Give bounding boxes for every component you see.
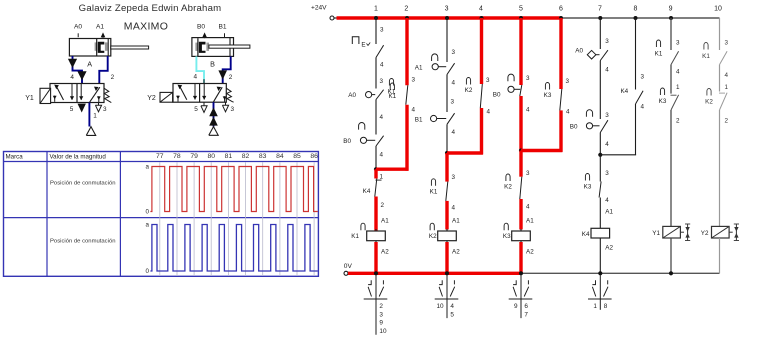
svg-text:A2: A2 (526, 249, 534, 256)
cylinder A piston rod (111, 46, 149, 49)
active wire (519, 151, 522, 177)
svg-text:4: 4 (380, 114, 384, 121)
svg-text:4: 4 (452, 205, 456, 212)
junction branch5/branch6 (519, 148, 523, 152)
svg-text:E: E (361, 42, 365, 49)
valve A 1-2 arrowhead (94, 87, 99, 91)
svg-text:K4: K4 (363, 188, 371, 195)
flow arrow down into valve B port 2 (218, 70, 227, 79)
flow arrows up (valve B supply) (209, 107, 218, 116)
svg-text:3: 3 (676, 40, 680, 47)
contact usage table K3 (520, 275, 522, 318)
NC bar (376, 179, 382, 181)
contact blade (closed) (375, 179, 377, 197)
svg-text:MAXIMO: MAXIMO (124, 21, 168, 33)
svg-text:9: 9 (669, 6, 673, 13)
Y2 link dash (729, 231, 733, 233)
svg-text:3: 3 (379, 311, 383, 318)
svg-text:Marca: Marca (6, 153, 24, 160)
wire Y2 to 0V (719, 238, 721, 273)
svg-text:3: 3 (566, 78, 570, 85)
svg-text:1: 1 (676, 84, 680, 91)
contact blade (open) (671, 95, 679, 110)
junction branch7/branch8 (598, 153, 602, 157)
wire (375, 100, 377, 135)
svg-text:K3: K3 (503, 233, 511, 240)
junction at 0V rail (519, 271, 523, 275)
contact blade (open) (720, 93, 728, 110)
relay contact K1 (NO, closed) (431, 179, 435, 186)
junction branch1/branch2 (374, 167, 378, 171)
wire (599, 61, 601, 120)
solenoid coil Y2 (712, 226, 730, 238)
active wire branch4 to branch3 junction (447, 151, 483, 154)
svg-text:A2: A2 (381, 249, 389, 256)
svg-text:3: 3 (452, 174, 456, 181)
valve B body (5/2 way) (173, 84, 226, 103)
limit-switch roller (360, 137, 366, 143)
valve A port5 exhaust flow arrow (78, 104, 86, 113)
svg-text:1: 1 (725, 84, 729, 91)
junction at 0V rail (445, 271, 449, 275)
wire (375, 146, 377, 169)
branch 1 upper wire (375, 18, 377, 44)
svg-text:84: 84 (276, 153, 284, 160)
svg-text:83: 83 (259, 153, 267, 160)
Y2 valve-link arrows (735, 224, 737, 241)
rail junction dots (374, 16, 378, 20)
valve A right cell port-3 stub (98, 96, 100, 102)
active wire to 0V (519, 242, 522, 273)
arc over B0 branch7 (actuated) (586, 110, 592, 117)
table column separator 2 (119, 152, 121, 277)
svg-text:4: 4 (725, 72, 729, 79)
svg-text:79: 79 (190, 153, 198, 160)
valve B 1-2 arrowhead (217, 87, 222, 91)
svg-text:77: 77 (156, 153, 164, 160)
active wire to K1 contact (445, 153, 448, 182)
svg-text:A1: A1 (526, 218, 534, 225)
svg-text:K1: K1 (702, 53, 710, 60)
junction at 0V rail (598, 271, 602, 275)
NC bar (719, 92, 725, 94)
Y1 valve-link arrows (687, 224, 689, 241)
contact blade (closed) (560, 89, 562, 110)
limit-switch roller (508, 86, 514, 92)
svg-text:4: 4 (526, 204, 530, 211)
state diagram table frame (4, 152, 319, 277)
valve B port1 supply line (navy) (213, 102, 215, 126)
branch 2 active wire down (405, 105, 408, 171)
valve B left cell arrow 1->4 (180, 87, 187, 100)
relay contact K2 (NO, closed) (466, 77, 470, 84)
svg-text:A2: A2 (605, 245, 613, 252)
svg-text:Valor de la magnitud: Valor de la magnitud (50, 153, 107, 160)
active wire to 0V (445, 242, 448, 273)
svg-text:78: 78 (173, 153, 181, 160)
svg-text:1: 1 (374, 6, 378, 13)
svg-text:B: B (210, 60, 215, 69)
wire (599, 133, 601, 155)
NC bar (671, 94, 677, 96)
svg-text:Posición de conmutación: Posición de conmutación (50, 239, 116, 245)
svg-text:A0: A0 (74, 24, 82, 31)
valve A port3 exhaust triangle (98, 103, 100, 106)
branch 6 active wire from +24V (559, 18, 562, 89)
svg-text:85: 85 (293, 153, 301, 160)
svg-text:4: 4 (452, 129, 456, 136)
branch 3 upper wire (446, 18, 448, 62)
svg-text:A1: A1 (96, 24, 104, 31)
arc over K1 coil label (361, 223, 365, 230)
branch 5 active wire from +24V (519, 18, 522, 85)
contact blade (closed) (520, 177, 522, 199)
relay contact K1 (NO, closed) (389, 78, 393, 85)
valve B port3 exhaust triangle (225, 102, 227, 105)
contact blade (open) (376, 136, 384, 146)
contact blade (open) (376, 90, 384, 100)
junction at 0V rail (374, 271, 378, 275)
svg-text:7: 7 (524, 311, 528, 318)
table row separator (4, 217, 319, 219)
flow arrow down (A left tube upper) (68, 59, 77, 68)
table column separator 1 (46, 152, 48, 277)
svg-text:3: 3 (605, 112, 609, 119)
svg-text:3: 3 (605, 38, 609, 45)
svg-text:8: 8 (634, 6, 638, 13)
limit-switch roller (586, 123, 592, 129)
svg-text:3: 3 (380, 27, 384, 34)
relay contact K3 (NC, open) (660, 88, 664, 95)
wire (599, 198, 601, 229)
svg-text:9: 9 (514, 303, 518, 310)
relay contact K2 (NO, closed) (506, 174, 510, 181)
valve A left cell arrow 1->4 (57, 87, 64, 100)
svg-text:3: 3 (641, 74, 645, 81)
active wire junction to K4 contact (374, 169, 377, 178)
valve A return spring (104, 88, 111, 102)
svg-text:K1: K1 (388, 89, 396, 96)
svg-text:3: 3 (451, 99, 455, 106)
svg-text:5: 5 (194, 106, 198, 113)
svg-text:3: 3 (725, 40, 729, 47)
svg-text:10: 10 (379, 328, 387, 335)
svg-text:2: 2 (381, 202, 385, 209)
contact blade (open) (720, 51, 728, 64)
wire Y1 to 0V (670, 238, 672, 273)
svg-text:A1: A1 (415, 65, 423, 72)
compressed air source (valve A) (86, 127, 95, 136)
solenoid coil Y1 (663, 226, 681, 238)
cylinder A rod-side cap (107, 39, 109, 57)
cylinder B body (192, 38, 234, 57)
valve B left cell arrowhead (178, 85, 183, 90)
active wire branch2 to branch1 junction (376, 167, 408, 170)
valve B return spring (226, 88, 233, 102)
solenoid Y2 box (160, 92, 173, 102)
svg-text:K3: K3 (544, 92, 552, 99)
svg-text:B0: B0 (197, 24, 205, 31)
B0 position marker (actuated arrow) (202, 32, 207, 37)
valve B left cell port stub (177, 96, 179, 102)
tube A left port to valve port 4 (navy) (73, 56, 83, 84)
svg-text:2: 2 (676, 118, 680, 125)
svg-text:A2: A2 (452, 249, 460, 256)
svg-text:2: 2 (404, 6, 408, 13)
limit-switch roller (432, 64, 438, 70)
svg-text:a: a (146, 222, 150, 229)
svg-text:4: 4 (641, 104, 645, 111)
limit-switch roller (366, 92, 372, 98)
contact usage table K1 (375, 275, 377, 335)
valve A left cell arrowhead (54, 85, 59, 90)
contact usage table K4 (599, 275, 601, 310)
flow arrow down (A left tube lower) (77, 71, 86, 80)
contact blade (closed) (480, 84, 482, 108)
svg-text:K1: K1 (430, 188, 438, 195)
valve B cell divider (199, 84, 201, 103)
svg-text:5: 5 (70, 106, 74, 113)
svg-text:3: 3 (445, 6, 449, 13)
contact blade (open) (600, 120, 608, 132)
active wire to 0V (374, 242, 377, 273)
contact blade (open) (447, 113, 455, 124)
svg-text:+24V: +24V (311, 5, 327, 12)
junction at 0V rail (669, 271, 673, 275)
svg-text:K3: K3 (584, 184, 592, 191)
relay contact K3 (NO, closed) (585, 174, 589, 181)
vertical gridlines (159, 162, 161, 276)
svg-text:K2: K2 (429, 233, 437, 240)
svg-text:10: 10 (436, 303, 444, 310)
svg-text:B0: B0 (343, 138, 351, 145)
active wire (445, 201, 448, 230)
contact blade (closed) (599, 182, 601, 198)
svg-text:Galaviz Zepeda Edwin Abraham: Galaviz Zepeda Edwin Abraham (79, 3, 222, 14)
svg-text:3: 3 (486, 77, 490, 84)
relay coil (512, 231, 531, 241)
table header rule (4, 161, 319, 163)
svg-text:2: 2 (379, 303, 383, 310)
contact blade (closed) (446, 182, 448, 201)
junction branch3/branch4 (445, 151, 449, 155)
cylinder B piston rod (209, 45, 250, 48)
svg-text:4: 4 (605, 197, 609, 204)
svg-text:3: 3 (380, 78, 384, 85)
svg-text:8: 8 (604, 303, 608, 310)
svg-text:K4: K4 (620, 88, 628, 95)
svg-text:3: 3 (526, 170, 530, 177)
svg-text:K2: K2 (705, 99, 713, 106)
wire down (635, 104, 637, 155)
svg-text:4: 4 (380, 62, 384, 69)
0V rail (right part) (521, 272, 720, 274)
branch 10 wire from +24V (719, 18, 721, 50)
svg-text:80: 80 (207, 153, 215, 160)
svg-text:0V: 0V (344, 263, 353, 270)
arc over K1 tag (390, 83, 394, 90)
svg-text:4: 4 (380, 152, 384, 159)
valve A mid verticals with flow arrows (71, 84, 73, 100)
svg-text:0: 0 (146, 209, 150, 216)
active wire branch6 to branch5 junction (521, 149, 562, 152)
svg-text:4: 4 (566, 109, 570, 116)
cylinder A body (69, 39, 110, 57)
svg-text:4: 4 (605, 141, 609, 148)
svg-text:K4: K4 (582, 231, 590, 238)
valve A body (5/2 way) (50, 84, 104, 103)
tube B right port to valve port 2 (navy) (223, 56, 231, 83)
svg-text:81: 81 (225, 153, 233, 160)
branch 9 wire from +24V (670, 18, 672, 50)
valve B mid verticals with flow arrows (194, 84, 196, 100)
arc over B0 (actuated) (359, 123, 365, 130)
wire to 0V (599, 238, 601, 273)
relay contact K2 (NC, open) (707, 88, 711, 95)
valve A left cell port stub (54, 96, 56, 102)
branch 6 active wire down (559, 110, 562, 151)
svg-text:Y2: Y2 (147, 95, 156, 102)
svg-text:K1: K1 (351, 233, 359, 240)
branch 8 wire from +24V (635, 18, 637, 90)
svg-text:7: 7 (598, 6, 602, 13)
svg-text:a: a (146, 164, 150, 171)
cylinder B piston (retracted) (195, 43, 198, 51)
relay contact K3 (NO, closed) (545, 82, 549, 89)
A0 position tick (77, 33, 79, 37)
+24V rail (right part) (561, 17, 720, 19)
valve B right cell path 1->2 (214, 87, 223, 102)
active wire (519, 199, 522, 230)
svg-text:2: 2 (229, 74, 233, 81)
compressed air source (valve B) (209, 127, 218, 136)
wire (375, 58, 377, 89)
branch 4 active wire from +24V (480, 18, 483, 84)
svg-text:4: 4 (479, 6, 483, 13)
branch 2 active wire from +24V (405, 18, 408, 85)
valve A port1 supply line (navy) (88, 103, 90, 127)
svg-text:0: 0 (146, 268, 150, 275)
svg-text:Posición de conmutación: Posición de conmutación (50, 180, 116, 186)
valve A cell divider (76, 84, 78, 103)
svg-text:4: 4 (450, 303, 454, 310)
svg-text:A0: A0 (348, 92, 356, 99)
svg-text:2: 2 (111, 74, 115, 81)
svg-text:3: 3 (231, 106, 235, 113)
svg-text:B1: B1 (218, 24, 226, 31)
svg-text:A1: A1 (452, 218, 460, 225)
svg-text:6: 6 (524, 303, 528, 310)
svg-text:A1: A1 (381, 218, 389, 225)
svg-text:4: 4 (412, 107, 416, 114)
svg-text:Y1: Y1 (25, 95, 34, 102)
relay coil (367, 231, 386, 241)
svg-text:1: 1 (593, 303, 597, 310)
branch 4 active wire down (480, 108, 483, 154)
contact blade (open) (447, 63, 455, 74)
svg-text:3: 3 (526, 75, 530, 82)
contact usage table K2 (446, 275, 448, 318)
switch contact A0 (open, diamond actuator) (587, 50, 596, 59)
svg-text:1: 1 (380, 174, 384, 181)
A1 position marker (actuated arrow) (101, 32, 106, 37)
contact blade (closed) (520, 85, 522, 96)
valve A right cell path 1->2 (90, 87, 100, 102)
B1 position tick (224, 33, 226, 37)
wire (599, 155, 601, 182)
contact blade (open) (636, 91, 644, 104)
cylinder B rod-side cap (229, 38, 231, 57)
tube A right port to valve port 2 (navy) (99, 56, 107, 84)
svg-text:4: 4 (487, 109, 491, 116)
svg-text:6: 6 (559, 6, 563, 13)
blue waveform: Posicion de conmutacion (cylinder B) (150, 225, 317, 272)
svg-text:K2: K2 (465, 87, 473, 94)
svg-text:4: 4 (676, 69, 680, 76)
arc over B0 branch5 (actuated) (508, 74, 514, 81)
svg-text:1: 1 (93, 113, 97, 120)
svg-text:Y2: Y2 (701, 230, 709, 237)
svg-text:A1: A1 (605, 209, 613, 216)
Y1 link dash (680, 231, 684, 233)
svg-text:9: 9 (379, 320, 383, 327)
relay contact K1 (NO, open) (704, 42, 708, 49)
wire down to Y1 (670, 110, 672, 226)
svg-text:2: 2 (725, 118, 729, 125)
relay coil (591, 228, 610, 238)
svg-text:3: 3 (452, 49, 456, 56)
svg-text:A: A (87, 60, 92, 69)
wire branch8 to branch7 junction (600, 154, 636, 156)
limit-switch roller (431, 115, 437, 121)
E contact blade (376, 45, 384, 57)
svg-text:Y1: Y1 (652, 230, 660, 237)
svg-text:5: 5 (450, 311, 454, 318)
wire down to Y2 (719, 110, 721, 226)
solenoid Y1 box (40, 88, 51, 103)
relay coil (438, 231, 457, 241)
+24V rail (red active part) (337, 16, 562, 19)
svg-text:4: 4 (70, 74, 74, 81)
svg-text:4: 4 (605, 67, 609, 74)
svg-text:3: 3 (103, 106, 107, 113)
contact blade (open) (671, 51, 679, 64)
svg-text:K1: K1 (655, 51, 663, 58)
svg-text:5: 5 (519, 6, 523, 13)
svg-text:A0: A0 (575, 48, 583, 55)
valve B right cell port-3 stub (224, 96, 226, 102)
svg-text:K2: K2 (504, 184, 512, 191)
cylinder A piston (extended) (95, 42, 98, 50)
active wire (374, 197, 377, 232)
svg-text:K3: K3 (659, 98, 667, 105)
svg-text:82: 82 (242, 153, 250, 160)
0V rail (red active part) (348, 272, 521, 275)
tube B left port to valve port 4 (cyan, vented) (196, 56, 204, 83)
svg-text:3: 3 (412, 77, 416, 84)
wire (446, 75, 448, 113)
contact blade (open) (600, 50, 608, 60)
wire (670, 65, 672, 94)
svg-text:B1: B1 (415, 116, 423, 123)
contact blade (closed) (406, 85, 408, 105)
svg-text:10: 10 (714, 6, 722, 13)
wire (719, 65, 721, 92)
wire (446, 124, 448, 153)
svg-text:4: 4 (526, 107, 530, 114)
svg-text:3: 3 (605, 170, 609, 177)
svg-text:B0: B0 (570, 124, 578, 131)
